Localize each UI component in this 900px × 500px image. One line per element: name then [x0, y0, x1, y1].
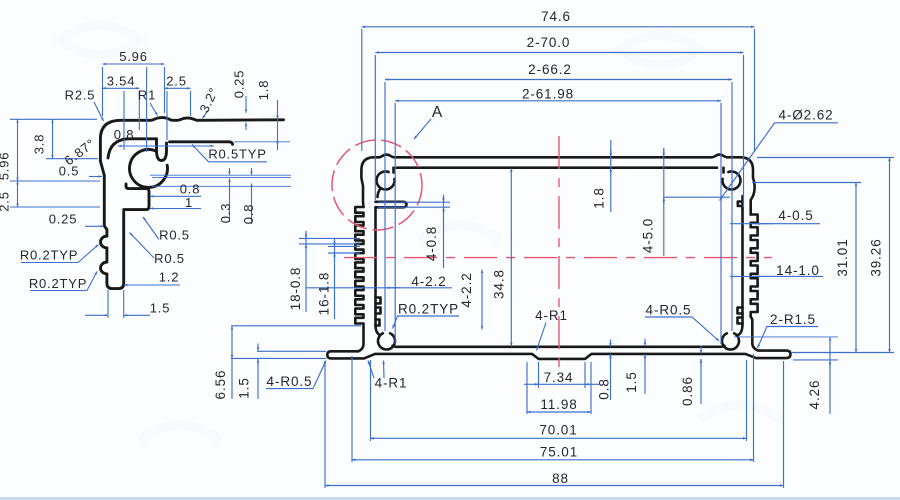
dim 2-70.0: [375, 52, 743, 54]
svg-text:3.54: 3.54: [107, 74, 136, 89]
detail boss C: [129, 149, 167, 187]
svg-text:16-1.8: 16-1.8: [317, 272, 332, 316]
screw boss top-right: [722, 171, 740, 189]
dim 0.25 detail lower: [85, 225, 104, 227]
svg-text:A: A: [432, 104, 443, 121]
main right wall outer teeth: [751, 215, 758, 317]
bottom-left inner nubs: [376, 298, 381, 326]
svg-text:R0.5: R0.5: [154, 251, 185, 266]
leader R2.5: [94, 102, 104, 121]
svg-text:R0.5: R0.5: [159, 228, 190, 243]
svg-text:4.26: 4.26: [807, 380, 822, 410]
svg-text:2-61.98: 2-61.98: [522, 87, 574, 102]
svg-text:5.96: 5.96: [0, 152, 12, 181]
dim 75.01: [352, 459, 754, 461]
main profile outer shell: [361, 155, 754, 215]
svg-text:0.25: 0.25: [49, 212, 78, 227]
main inner right wall lower: [741, 209, 744, 324]
dim 2-66.2: [385, 79, 732, 81]
dim 11.98: [526, 362, 528, 414]
detail dim 3.8: [52, 119, 54, 158]
detail ext verticals top: [102, 67, 104, 116]
dim 34.8: [510, 169, 512, 347]
svg-text:1.5: 1.5: [150, 301, 170, 316]
svg-text:0.8: 0.8: [597, 378, 612, 399]
dim 70.01: [371, 437, 747, 439]
detail wall fins: [101, 236, 107, 274]
screw boss bottom-right: [722, 333, 739, 349]
leader 4-R0.5 bottom-left: [266, 361, 326, 389]
svg-text:3.2°: 3.2°: [196, 85, 221, 115]
svg-text:18-0.8: 18-0.8: [288, 267, 303, 311]
svg-text:1.8: 1.8: [256, 80, 271, 100]
dim 1.8 top wall: [610, 140, 612, 212]
main profile left wall outer teeth: [355, 207, 363, 327]
svg-text:R0.2TYP: R0.2TYP: [20, 248, 78, 263]
svg-text:R0.2TYP: R0.2TYP: [398, 302, 459, 317]
screw boss bottom-left: [378, 333, 395, 349]
main profile bottom inner line: [398, 345, 719, 348]
leader R0.5 1: [143, 217, 159, 240]
svg-text:1: 1: [185, 195, 193, 210]
detail inner top line: [108, 139, 157, 158]
svg-text:88: 88: [552, 471, 569, 486]
dim 0.8 top wall detail: [118, 145, 214, 147]
detail dim 5.96 left: [17, 119, 19, 181]
leader 4-R1 bottom-left: [368, 361, 374, 379]
svg-text:1.8: 1.8: [592, 187, 607, 208]
main inner right wall upper: [741, 196, 744, 209]
svg-text:R0.2TYP: R0.2TYP: [29, 276, 87, 291]
ext lines top-right: [754, 29, 756, 152]
svg-text:74.6: 74.6: [541, 9, 571, 24]
dim 1.5 detail: [107, 290, 109, 318]
svg-text:4-0.8: 4-0.8: [424, 226, 439, 261]
detail dim 5.96 top: [103, 63, 165, 65]
svg-text:6.56: 6.56: [213, 370, 228, 400]
dim 1 step: [150, 208, 201, 210]
detail dim 3.54: [103, 87, 140, 89]
svg-text:4-R1: 4-R1: [375, 376, 408, 391]
svg-text:2-70.0: 2-70.0: [527, 35, 571, 50]
dim 1.2: [124, 284, 180, 286]
dim 2-61.98: [395, 100, 721, 102]
svg-text:1.5: 1.5: [624, 371, 639, 392]
dim 4-0.8 left lip: [443, 196, 445, 268]
red horizontal centerline: [344, 257, 772, 259]
svg-text:4-Ø2.62: 4-Ø2.62: [778, 108, 833, 123]
svg-text:75.01: 75.01: [540, 445, 578, 460]
leader 4-R1 center: [537, 323, 547, 351]
detail inner step: [124, 184, 149, 210]
leader R0.2TYP main: [393, 316, 460, 329]
dim 1.5 left flange: [257, 344, 259, 351]
dim 31.01: [855, 183, 857, 353]
svg-text:4-R0.5: 4-R0.5: [267, 374, 313, 389]
svg-text:5.96: 5.96: [119, 49, 148, 64]
detail left ext horizontals: [10, 118, 97, 120]
leader R0.5 2: [130, 233, 155, 259]
svg-text:3.8: 3.8: [32, 134, 47, 154]
leader R0.5TYP detail: [192, 145, 267, 162]
red vertical centerline: [558, 136, 560, 372]
svg-text:R2.5: R2.5: [65, 88, 96, 103]
svg-text:0.8: 0.8: [114, 127, 134, 142]
dim 0.25 top-right (rot): [245, 96, 247, 113]
svg-text:0.8: 0.8: [241, 204, 256, 224]
leader 4-R0.5 right: [645, 317, 719, 341]
detail dim 2.5 left: [17, 181, 19, 207]
dim 0.86 bottom: [700, 346, 702, 354]
svg-text:R1: R1: [138, 88, 156, 103]
ext lines bottom dims: [370, 360, 372, 441]
ext 6.56 top / flange lines left: [231, 325, 361, 327]
svg-text:2.5: 2.5: [166, 74, 186, 89]
dim 14-1.0 right: [730, 275, 823, 277]
svg-text:0.5: 0.5: [59, 164, 79, 179]
dim 39.26: [889, 158, 891, 353]
small step below boss TR: [738, 202, 743, 206]
leader 4-dia2.62: [720, 123, 839, 201]
detail dim 2.5 top: [165, 87, 191, 89]
svg-text:4-R1: 4-R1: [535, 308, 568, 323]
svg-text:14-1.0: 14-1.0: [776, 263, 820, 278]
dim 0.5 detail: [89, 176, 102, 178]
dim 16-1.8: [334, 239, 336, 319]
dim 4-5.0: [663, 148, 665, 256]
svg-text:0.86: 0.86: [680, 376, 695, 406]
svg-text:4-5.0: 4-5.0: [641, 218, 656, 253]
leader A: [414, 119, 431, 139]
dim 18-0.8: [305, 231, 307, 312]
leader R0.2TYP 2: [30, 272, 97, 291]
main right wall bottom and flanges and bottom outer: [327, 317, 790, 359]
svg-text:1.5: 1.5: [237, 377, 252, 398]
dim 0.8 step: [150, 195, 201, 197]
leader R1: [150, 103, 158, 116]
svg-text:31.01: 31.01: [835, 238, 850, 276]
screw boss top-left: [377, 171, 395, 189]
bottom-right inner nubs: [738, 308, 743, 324]
bottom-right wall tail: [739, 324, 743, 335]
dim 4-0.5 right: [730, 223, 820, 225]
svg-text:2-66.2: 2-66.2: [528, 62, 572, 77]
svg-text:2-R1.5: 2-R1.5: [770, 312, 816, 327]
leader R0.2TYP 1: [21, 245, 99, 263]
svg-text:4-2.2: 4-2.2: [411, 274, 446, 289]
svg-text:2.5: 2.5: [0, 191, 12, 211]
dim 4.26: [829, 337, 831, 414]
dim 0.3 rot: [229, 168, 231, 175]
dim 1.5 bottom: [644, 339, 646, 346]
background watermark: [60, 25, 780, 440]
detail slot U: [157, 139, 167, 161]
svg-text:0.25: 0.25: [232, 70, 247, 99]
svg-text:70.01: 70.01: [539, 423, 577, 438]
leader 2-R1.5: [758, 327, 819, 349]
dim 4-2.2 vertical: [481, 270, 483, 330]
svg-text:R0.5TYP: R0.5TYP: [208, 147, 266, 162]
dim 6.56: [231, 326, 233, 358]
detail view outer top and corner: [100, 118, 283, 161]
detail left wall with jogs: [100, 161, 107, 236]
dim 88: [325, 485, 784, 487]
dim 0.8 bottom wall: [610, 340, 612, 347]
svg-text:0.3: 0.3: [218, 203, 233, 223]
svg-text:7.34: 7.34: [544, 370, 574, 385]
main inner left wall: [374, 207, 377, 325]
ext lines right side: [757, 157, 894, 159]
svg-text:11.98: 11.98: [540, 397, 577, 412]
svg-text:4-2.2: 4-2.2: [459, 272, 474, 307]
svg-text:34.8: 34.8: [492, 269, 507, 299]
svg-text:4-0.5: 4-0.5: [778, 208, 813, 223]
bottom-left wall tail: [376, 326, 380, 335]
svg-text:39.26: 39.26: [869, 238, 884, 276]
dim 7.34: [538, 362, 540, 388]
dim 1.8 detail right: [277, 100, 279, 150]
detail right ext horizontals: [150, 174, 291, 176]
detail lip: [170, 142, 233, 145]
leader 3.2deg: [203, 110, 209, 119]
dim 74.6: [362, 26, 755, 28]
red detail circle A: [332, 140, 422, 230]
dim 0.8 rot right: [251, 168, 253, 175]
svg-text:1.2: 1.2: [159, 270, 179, 285]
svg-text:4-R0.5: 4-R0.5: [646, 303, 692, 318]
dim 4-2.2 horizontal leader: [306, 287, 452, 289]
bottom page edge line: [0, 497, 900, 500]
ext lines top-left: [361, 29, 363, 151]
main profile top inner line: [397, 166, 718, 169]
lip step below boss TL: [376, 202, 407, 208]
